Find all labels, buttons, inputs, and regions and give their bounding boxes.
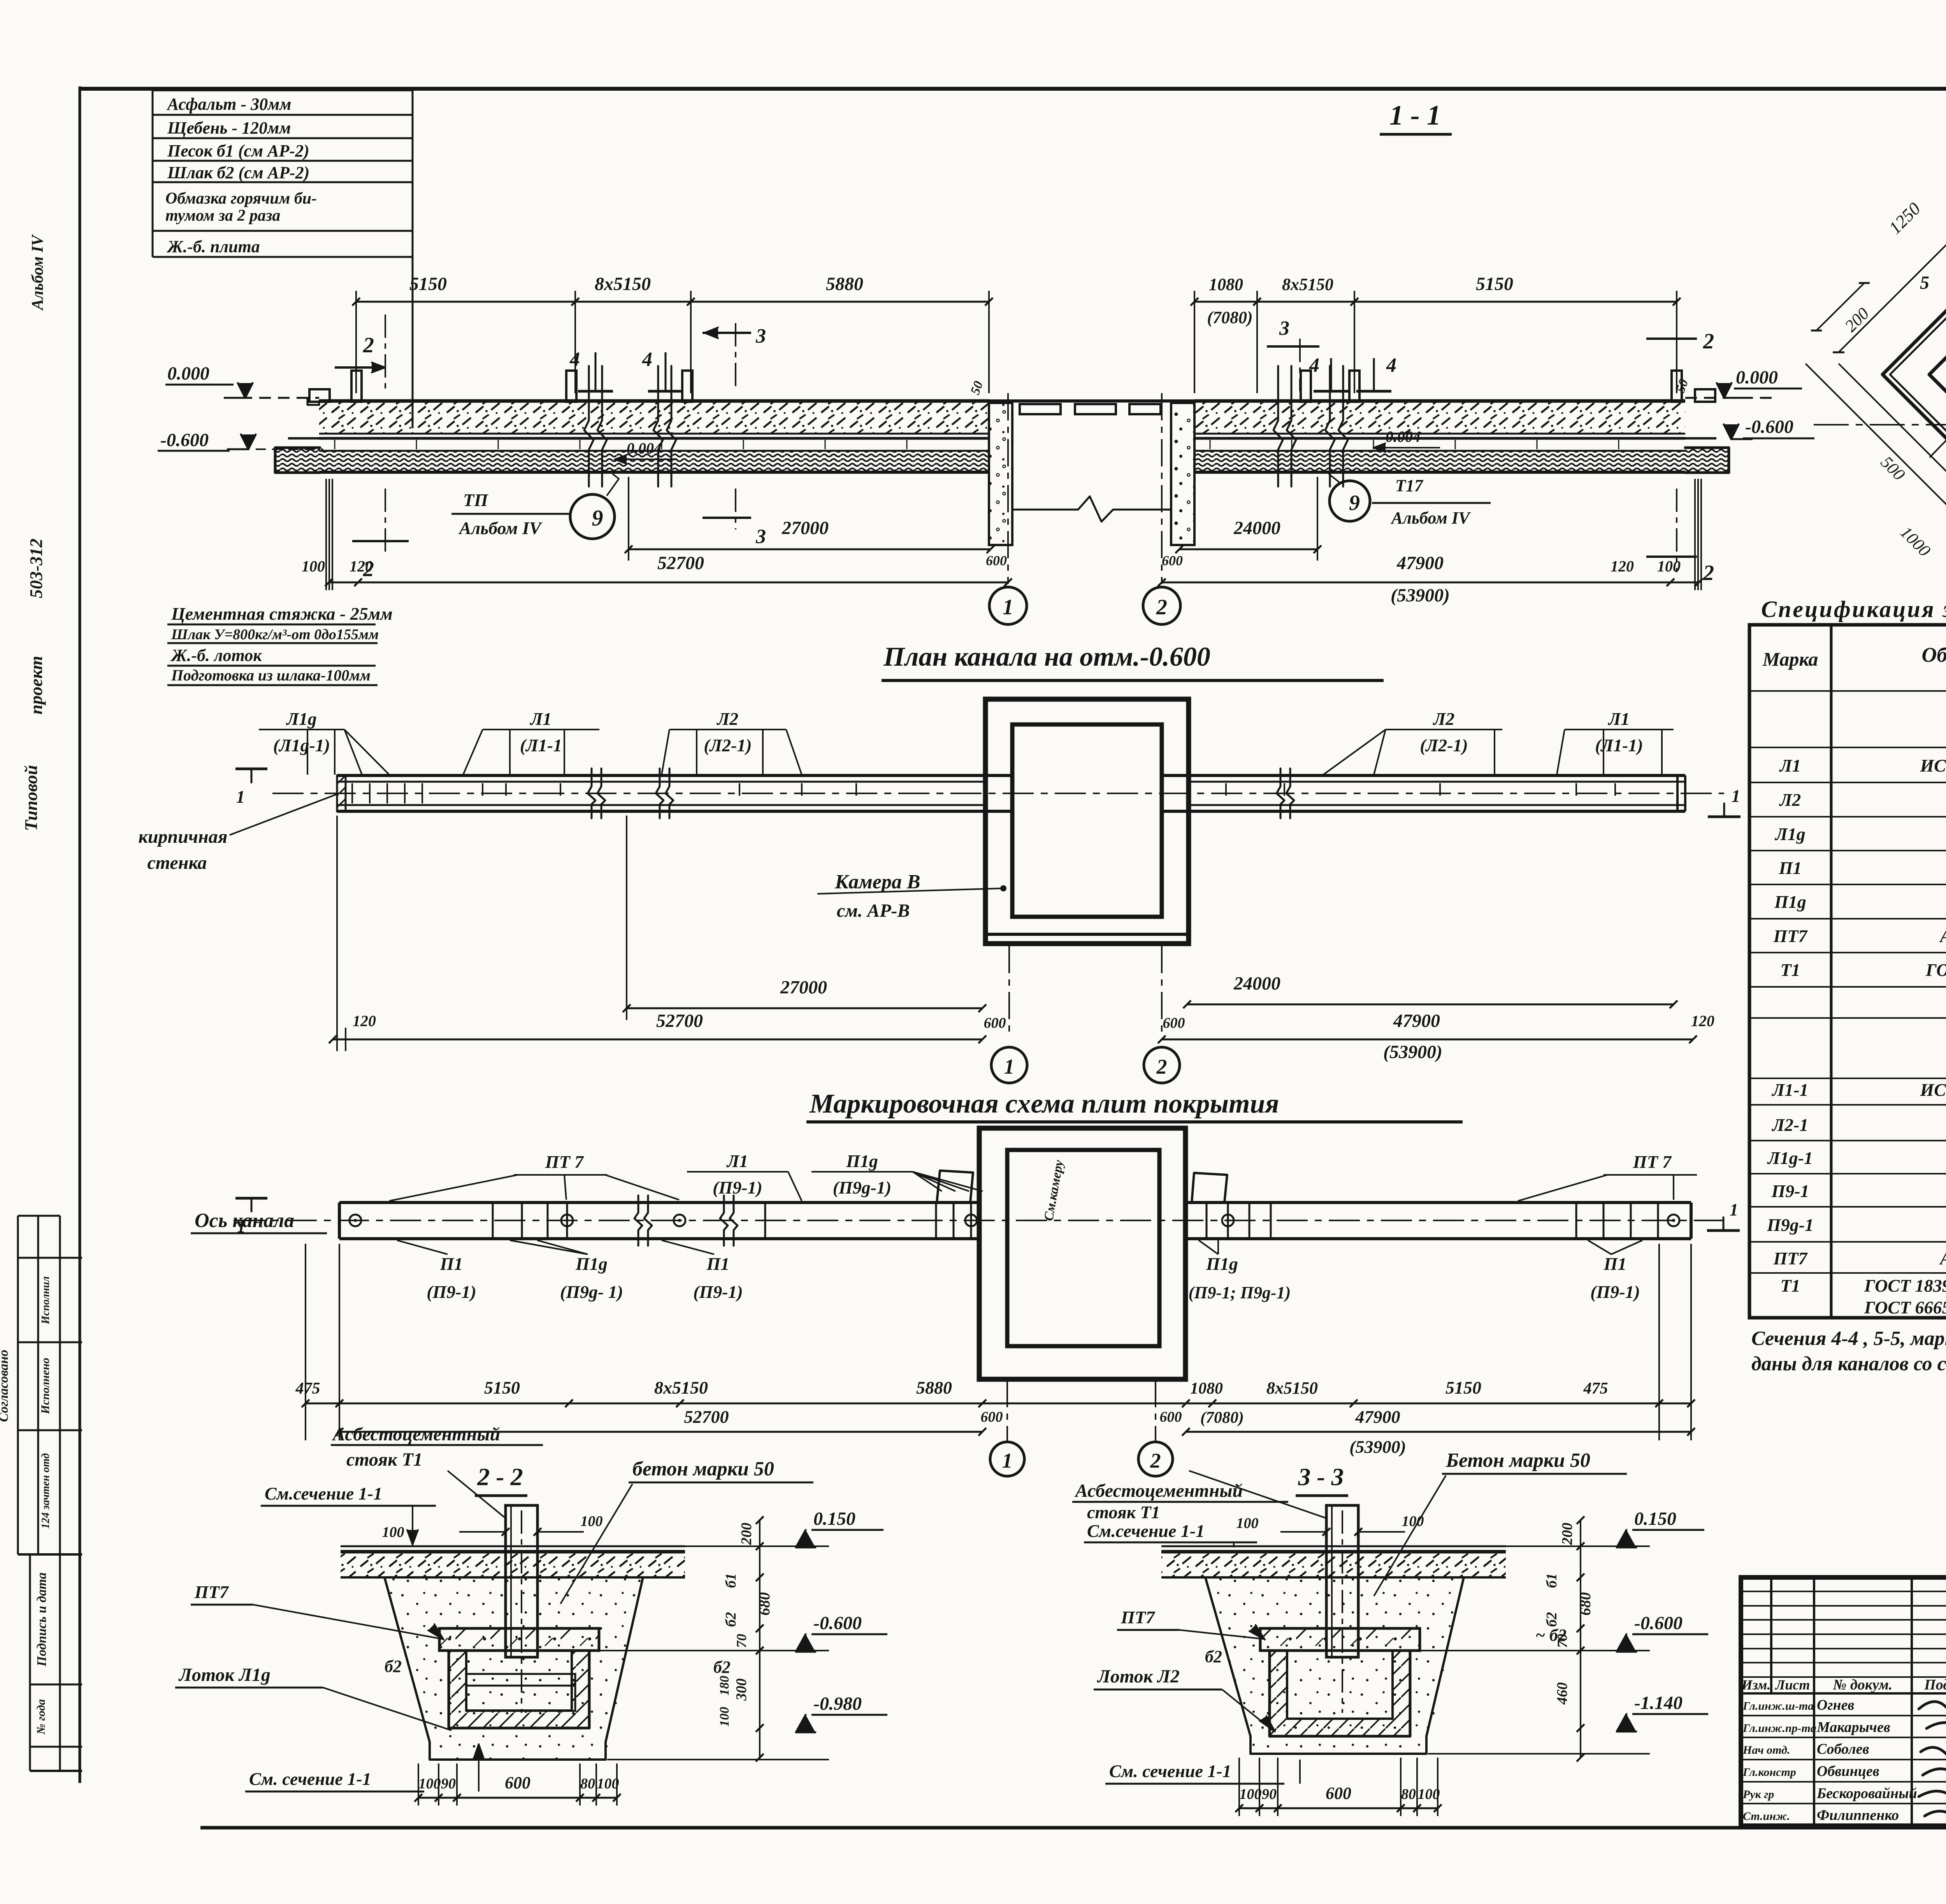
- svg-text:П1: П1: [440, 1254, 463, 1274]
- svg-text:52700: 52700: [656, 1011, 703, 1031]
- svg-text:бетон марки 50: бетон марки 50: [632, 1458, 774, 1480]
- svg-text:ПТ7: ПТ7: [1773, 1248, 1808, 1268]
- svg-text:680: 680: [1576, 1592, 1594, 1616]
- svg-text:1: 1: [1730, 1200, 1738, 1219]
- svg-text:Л1g-1: Л1g-1: [1767, 1148, 1813, 1168]
- svg-text:Л2: Л2: [717, 709, 739, 729]
- svg-text:Лоток Л1g: Лоток Л1g: [178, 1665, 270, 1685]
- svg-text:70: 70: [734, 1634, 749, 1648]
- svg-text:(53900): (53900): [1349, 1437, 1406, 1457]
- svg-text:б2: б2: [1544, 1612, 1560, 1627]
- svg-text:120: 120: [1691, 1012, 1714, 1030]
- svg-text:Л2: Л2: [1779, 790, 1801, 810]
- svg-text:27000: 27000: [780, 977, 827, 998]
- svg-text:б2: б2: [713, 1658, 731, 1677]
- svg-text:Ст.инж.: Ст.инж.: [1743, 1810, 1790, 1823]
- svg-text:503-312: 503-312: [26, 538, 46, 598]
- svg-text:(Л2-1): (Л2-1): [1420, 735, 1468, 755]
- svg-text:проект: проект: [26, 656, 46, 715]
- svg-text:5880: 5880: [826, 274, 863, 294]
- svg-text:24000: 24000: [1233, 973, 1280, 994]
- svg-text:Филиппенко: Филиппенко: [1817, 1807, 1899, 1823]
- svg-text:100: 100: [1418, 1786, 1440, 1802]
- svg-text:0.150: 0.150: [1634, 1508, 1676, 1529]
- svg-text:Т17: Т17: [1395, 476, 1424, 495]
- svg-text:Согласовано: Согласовано: [0, 1350, 11, 1422]
- svg-text:124 зачтен отд: 124 зачтен отд: [40, 1453, 52, 1529]
- svg-text:П9g-1: П9g-1: [1767, 1215, 1814, 1235]
- svg-text:Гл.констр: Гл.констр: [1742, 1766, 1796, 1779]
- svg-text:б1: б1: [1544, 1573, 1560, 1588]
- svg-text:200: 200: [738, 1523, 755, 1545]
- svg-text:Л1-1: Л1-1: [1772, 1080, 1809, 1100]
- svg-text:Л2: Л2: [1433, 709, 1455, 729]
- svg-text:Бетон марки 50: Бетон марки 50: [1445, 1449, 1590, 1472]
- svg-text:100: 100: [597, 1776, 619, 1792]
- svg-text:кирпичная: кирпичная: [139, 826, 228, 847]
- svg-text:ПТ 7: ПТ 7: [1633, 1152, 1672, 1172]
- svg-text:80: 80: [1401, 1786, 1416, 1802]
- svg-text:1080: 1080: [1190, 1380, 1223, 1398]
- svg-text:2: 2: [1703, 329, 1714, 353]
- svg-text:1: 1: [1002, 1449, 1013, 1472]
- svg-text:Рук гр: Рук гр: [1742, 1788, 1774, 1801]
- svg-text:П1: П1: [1779, 858, 1802, 878]
- svg-text:5: 5: [1920, 273, 1929, 293]
- svg-text:(П9-1): (П9-1): [713, 1178, 762, 1197]
- svg-text:47900: 47900: [1393, 1011, 1440, 1031]
- svg-text:Шлак У=800кг/м³-от 0до155мм: Шлак У=800кг/м³-от 0до155мм: [171, 626, 379, 643]
- svg-text:Исполнил: Исполнил: [40, 1276, 52, 1325]
- svg-text:Исполнено: Исполнено: [39, 1358, 52, 1415]
- svg-text:180: 180: [717, 1676, 732, 1696]
- svg-text:стояк Т1: стояк Т1: [346, 1449, 423, 1470]
- svg-text:1: 1: [236, 787, 245, 807]
- svg-text:ПТ7: ПТ7: [1121, 1607, 1156, 1627]
- svg-text:(7080): (7080): [1207, 308, 1252, 327]
- svg-text:Л1: Л1: [726, 1151, 748, 1171]
- svg-text:(53900): (53900): [1383, 1042, 1442, 1062]
- svg-text:600: 600: [505, 1773, 530, 1792]
- svg-text:600: 600: [1163, 1015, 1185, 1031]
- svg-text:1: 1: [1732, 786, 1741, 806]
- svg-text:100: 100: [1236, 1515, 1259, 1531]
- svg-text:Камера В: Камера В: [834, 871, 920, 893]
- svg-text:Альбом IV: Альбом IV: [1390, 508, 1471, 527]
- svg-text:-0.980: -0.980: [813, 1693, 862, 1714]
- svg-text:см. АР-В: см. АР-В: [837, 900, 910, 921]
- svg-text:Обвинцев: Обвинцев: [1817, 1763, 1879, 1779]
- svg-text:Маркировочная схема плит покры: Маркировочная схема плит покрытия: [809, 1089, 1279, 1119]
- svg-text:(Л1-1: (Л1-1: [520, 735, 562, 755]
- svg-text:даны для каналов со скво: даны для каналов со сквозным проездом ав…: [1751, 1353, 1946, 1375]
- svg-text:(Л1-1): (Л1-1): [1595, 735, 1643, 755]
- svg-text:План канала на отм.-0.600: План канала на отм.-0.600: [883, 642, 1210, 672]
- svg-text:(П9-1): (П9-1): [427, 1282, 476, 1302]
- svg-text:100: 100: [419, 1776, 441, 1792]
- svg-text:52700: 52700: [657, 553, 704, 573]
- svg-text:600: 600: [1326, 1784, 1351, 1803]
- svg-text:0.000: 0.000: [1736, 367, 1778, 388]
- svg-text:ПТ7: ПТ7: [1773, 926, 1808, 946]
- svg-text:0.004: 0.004: [1386, 428, 1421, 445]
- svg-text:-0.600: -0.600: [1745, 417, 1793, 437]
- svg-text:-0.600: -0.600: [1634, 1613, 1683, 1633]
- svg-text:4: 4: [569, 348, 580, 371]
- svg-text:Л1g: Л1g: [1774, 824, 1805, 844]
- svg-text:100: 100: [302, 557, 325, 575]
- svg-text:1: 1: [237, 1217, 246, 1236]
- svg-text:Обозначение: Обозначение: [1921, 643, 1946, 666]
- svg-text:600: 600: [984, 1015, 1006, 1031]
- svg-text:460: 460: [1554, 1682, 1570, 1705]
- svg-text:(П9-1): (П9-1): [1590, 1282, 1640, 1302]
- svg-text:600: 600: [1162, 553, 1183, 568]
- svg-text:47900: 47900: [1355, 1407, 1400, 1427]
- svg-text:Л1: Л1: [1779, 756, 1801, 775]
- svg-text:Лоток Л2: Лоток Л2: [1097, 1666, 1180, 1687]
- svg-text:Л1: Л1: [530, 709, 552, 729]
- svg-text:П1: П1: [1604, 1254, 1627, 1274]
- svg-text:2: 2: [1150, 1449, 1161, 1472]
- svg-text:8х5150: 8х5150: [595, 274, 651, 294]
- svg-text:См. сечение 1-1: См. сечение 1-1: [249, 1769, 371, 1789]
- svg-text:100: 100: [581, 1513, 603, 1530]
- svg-text:0.150: 0.150: [813, 1508, 855, 1529]
- svg-text:(Л1g-1): (Л1g-1): [273, 735, 330, 755]
- svg-text:0.004: 0.004: [627, 440, 662, 457]
- svg-text:52700: 52700: [684, 1407, 729, 1427]
- svg-text:Макарычев: Макарычев: [1816, 1719, 1890, 1735]
- svg-text:27000: 27000: [782, 518, 829, 538]
- svg-text:600: 600: [1160, 1409, 1182, 1425]
- svg-text:стенка: стенка: [147, 853, 207, 873]
- svg-text:3: 3: [755, 526, 766, 548]
- svg-text:1 - 1: 1 - 1: [1389, 100, 1441, 131]
- svg-text:-0.600: -0.600: [813, 1613, 862, 1633]
- svg-text:1080: 1080: [1209, 275, 1243, 294]
- svg-text:Альбом IV: Альбом IV: [1939, 926, 1946, 946]
- svg-text:475: 475: [1583, 1380, 1608, 1398]
- svg-text:2 - 2: 2 - 2: [477, 1463, 523, 1491]
- svg-text:См. сечение 1-1: См. сечение 1-1: [1109, 1761, 1231, 1781]
- svg-text:1: 1: [1003, 595, 1013, 619]
- svg-text:№ докум.: № докум.: [1833, 1677, 1893, 1693]
- svg-text:П1g: П1g: [1774, 892, 1806, 912]
- svg-text:Песок б1 (см АР-2): Песок б1 (см АР-2): [167, 141, 309, 160]
- svg-text:б2: б2: [385, 1657, 402, 1676]
- svg-text:8х5150: 8х5150: [1282, 275, 1333, 294]
- svg-text:ТП: ТП: [463, 490, 488, 510]
- svg-text:(7080): (7080): [1200, 1409, 1244, 1427]
- svg-text:(Л2-1): (Л2-1): [704, 735, 752, 755]
- svg-text:3: 3: [1279, 317, 1289, 339]
- svg-text:0.000: 0.000: [167, 363, 209, 384]
- svg-text:1: 1: [1004, 1055, 1015, 1078]
- svg-text:ИС-01-04 вып.2: ИС-01-04 вып.2: [1920, 756, 1946, 775]
- svg-text:4: 4: [642, 348, 652, 371]
- svg-text:-1.140: -1.140: [1634, 1693, 1683, 1713]
- svg-text:Изм.: Изм.: [1741, 1677, 1771, 1693]
- svg-text:(53900): (53900): [1391, 585, 1450, 606]
- svg-text:~ б2: ~ б2: [1535, 1626, 1567, 1645]
- svg-text:Огнев: Огнев: [1817, 1697, 1854, 1713]
- svg-text:Л1g: Л1g: [286, 709, 317, 729]
- svg-text:б2: б2: [723, 1612, 739, 1627]
- svg-text:тумом за 2 раза: тумом за 2 раза: [165, 207, 280, 225]
- svg-text:200: 200: [1559, 1523, 1575, 1545]
- svg-text:Ж.-б. плита: Ж.-б. плита: [166, 237, 260, 256]
- svg-text:3: 3: [755, 325, 766, 347]
- svg-text:Л1: Л1: [1608, 709, 1630, 729]
- svg-text:120: 120: [1611, 557, 1634, 575]
- svg-text:5150: 5150: [1445, 1378, 1481, 1398]
- svg-text:Подпись и дата: Подпись и дата: [35, 1572, 49, 1667]
- svg-text:б2: б2: [1205, 1647, 1222, 1666]
- svg-text:(П9-1; П9g-1): (П9-1; П9g-1): [1189, 1283, 1291, 1302]
- svg-text:Подготовка из шлака-100мм: Подготовка из шлака-100мм: [171, 666, 371, 684]
- svg-text:Лист: Лист: [1775, 1677, 1810, 1693]
- svg-text:47900: 47900: [1396, 553, 1444, 573]
- svg-text:90: 90: [1262, 1786, 1277, 1802]
- svg-text:Альбом IV: Альбом IV: [29, 234, 47, 311]
- svg-text:Л2-1: Л2-1: [1772, 1115, 1809, 1135]
- svg-text:600: 600: [981, 1409, 1003, 1425]
- svg-text:ПТ7: ПТ7: [194, 1582, 229, 1602]
- svg-text:120: 120: [353, 1012, 376, 1030]
- svg-text:(П9-1): (П9-1): [693, 1282, 743, 1302]
- svg-text:№ года: № года: [35, 1699, 47, 1735]
- svg-text:ГОСТ 1839-72: ГОСТ 1839-72: [1864, 1276, 1946, 1296]
- svg-text:5150: 5150: [484, 1378, 520, 1398]
- svg-text:Альбом IV: Альбом IV: [458, 518, 543, 538]
- svg-text:2: 2: [1703, 561, 1714, 585]
- svg-text:300: 300: [733, 1679, 750, 1701]
- svg-text:Гл.инж.ш-та: Гл.инж.ш-та: [1742, 1700, 1814, 1712]
- svg-text:Марка: Марка: [1762, 648, 1818, 670]
- svg-text:Сечения 4-4 , 5-5, марки пл: Сечения 4-4 , 5-5, марки плит, лотков, р…: [1751, 1327, 1946, 1350]
- svg-text:Асбестоцементный: Асбестоцементный: [332, 1424, 500, 1445]
- svg-text:Обмазка горячим би-: Обмазка горячим би-: [165, 190, 317, 207]
- svg-text:П1g: П1g: [1206, 1254, 1238, 1274]
- svg-text:П1g: П1g: [846, 1151, 878, 1171]
- svg-text:90: 90: [441, 1776, 456, 1792]
- svg-text:5150: 5150: [409, 274, 447, 294]
- svg-text:Шлак б2 (см АР-2): Шлак б2 (см АР-2): [167, 163, 309, 182]
- svg-text:ГОСТ 1839-72: ГОСТ 1839-72: [1925, 960, 1946, 980]
- svg-text:ПТ 7: ПТ 7: [545, 1152, 584, 1172]
- svg-text:ГОСТ 6665-74: ГОСТ 6665-74: [1864, 1297, 1946, 1317]
- svg-text:(П9g-1): (П9g-1): [833, 1178, 892, 1197]
- svg-text:8х5150: 8х5150: [1266, 1378, 1318, 1398]
- svg-text:100: 100: [1657, 557, 1681, 575]
- svg-text:Щебень - 120мм: Щебень - 120мм: [167, 118, 291, 137]
- svg-text:Цементная стяжка - 25мм: Цементная стяжка - 25мм: [171, 604, 393, 624]
- svg-text:Гл.инж.пр-та: Гл.инж.пр-та: [1742, 1722, 1816, 1735]
- svg-text:Подп.: Подп.: [1924, 1677, 1946, 1693]
- svg-text:8х5150: 8х5150: [654, 1378, 708, 1398]
- svg-text:2: 2: [1156, 1055, 1167, 1078]
- svg-text:Соболев: Соболев: [1817, 1741, 1869, 1757]
- svg-text:100: 100: [1402, 1513, 1424, 1530]
- svg-text:100: 100: [717, 1707, 732, 1727]
- svg-text:9: 9: [592, 505, 603, 531]
- svg-text:П1g: П1g: [575, 1254, 608, 1274]
- svg-text:Т1: Т1: [1780, 1276, 1800, 1296]
- svg-text:680: 680: [755, 1592, 773, 1616]
- svg-text:80: 80: [580, 1776, 595, 1792]
- svg-text:См.сечение 1-1: См.сечение 1-1: [265, 1484, 382, 1503]
- svg-text:(П9g- 1): (П9g- 1): [560, 1282, 623, 1302]
- svg-text:3 - 3: 3 - 3: [1298, 1463, 1344, 1491]
- svg-text:600: 600: [986, 553, 1007, 568]
- svg-text:-0.600: -0.600: [160, 430, 209, 450]
- svg-text:Бескоровайный: Бескоровайный: [1816, 1785, 1917, 1802]
- svg-text:9: 9: [1349, 491, 1360, 515]
- svg-text:2: 2: [1156, 595, 1167, 619]
- svg-text:б1: б1: [723, 1573, 739, 1588]
- svg-text:475: 475: [295, 1380, 320, 1398]
- svg-text:См.сечение 1-1: См.сечение 1-1: [1087, 1521, 1205, 1541]
- svg-text:Асфальт - 30мм: Асфальт - 30мм: [166, 95, 291, 114]
- svg-text:120: 120: [350, 557, 373, 575]
- svg-text:Альбом IV: Альбом IV: [1939, 1248, 1946, 1268]
- svg-text:Т1: Т1: [1780, 960, 1800, 980]
- svg-text:100: 100: [382, 1524, 404, 1540]
- svg-text:Типовой: Типовой: [21, 765, 41, 831]
- svg-text:П1: П1: [706, 1254, 730, 1274]
- svg-text:Ж.-б. лоток: Ж.-б. лоток: [170, 646, 262, 665]
- svg-text:Спецификация элементов, расп: Спецификация элементов, расположенных на…: [1761, 596, 1946, 622]
- svg-text:4: 4: [1386, 354, 1396, 376]
- svg-text:П9-1: П9-1: [1771, 1181, 1809, 1201]
- svg-text:5880: 5880: [916, 1378, 952, 1398]
- svg-text:2: 2: [363, 333, 374, 357]
- svg-text:Асбестоцементный: Асбестоцементный: [1074, 1480, 1243, 1501]
- svg-text:стояк Т1: стояк Т1: [1087, 1502, 1160, 1522]
- svg-text:ИС-01-04 вып.6: ИС-01-04 вып.6: [1920, 1080, 1946, 1100]
- svg-text:24000: 24000: [1233, 518, 1280, 538]
- svg-text:Нач отд.: Нач отд.: [1742, 1744, 1790, 1756]
- svg-text:4: 4: [1309, 354, 1319, 376]
- svg-text:100: 100: [1240, 1786, 1262, 1802]
- svg-text:5150: 5150: [1476, 274, 1513, 294]
